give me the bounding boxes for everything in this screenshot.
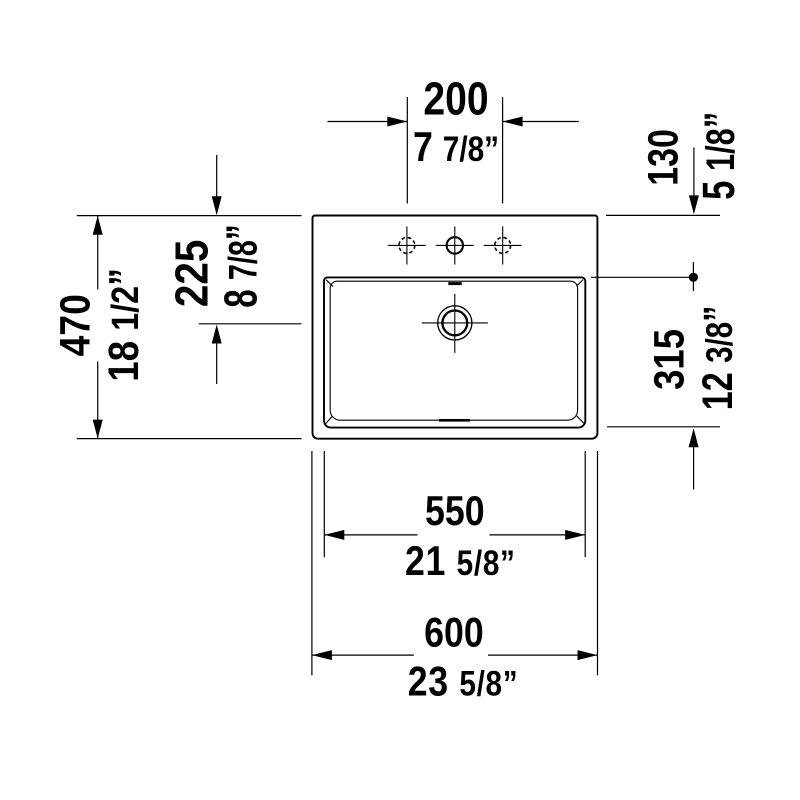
drain crosshair — [454, 294, 456, 353]
dim 200 leader right — [503, 121, 579, 123]
reference level line — [591, 276, 698, 278]
svg-text:315: 315 — [646, 329, 693, 390]
faucet hole right crosshair — [502, 226, 504, 264]
svg-text:12 3/8”: 12 3/8” — [694, 306, 742, 411]
dim 130 extension line — [606, 214, 720, 216]
svg-text:8 7/8”: 8 7/8” — [216, 224, 266, 308]
washbasin outer rim — [313, 216, 598, 439]
dim 315 extension line — [607, 426, 720, 428]
dim 600 extension line right — [597, 451, 599, 675]
basin inner rim line — [330, 281, 577, 420]
drain outer circle — [438, 306, 472, 340]
svg-text:130: 130 — [640, 129, 688, 186]
svg-text:18 1/2”: 18 1/2” — [100, 268, 147, 382]
dim 315 arrow — [689, 428, 699, 447]
dim 200 leader left — [328, 121, 408, 123]
basin corner crease top-left — [326, 280, 333, 287]
dim 470 extension line bottom — [77, 438, 302, 440]
dim 200 arrow right — [503, 117, 523, 127]
dim 470 line upper segment — [97, 216, 99, 290]
dim 200 extension line left — [406, 97, 408, 204]
faucet hole left (dashed optional) — [399, 238, 415, 254]
dim 600 line right segment — [488, 654, 598, 656]
svg-text:550: 550 — [425, 488, 485, 534]
dim 600 arrow right — [578, 650, 598, 660]
reference point tick — [692, 262, 694, 291]
basin corner crease bottom-right — [577, 416, 584, 424]
svg-text:470: 470 — [51, 294, 99, 356]
faucet hole center crosshair — [454, 226, 456, 264]
svg-text:23 5/8”: 23 5/8” — [408, 659, 519, 705]
svg-text:7 7/8”: 7 7/8” — [413, 124, 499, 170]
svg-text:200: 200 — [423, 74, 488, 126]
dim 550 extension line left — [323, 451, 325, 557]
dim 130 arrow line — [693, 148, 695, 198]
faucet hole center (solid) — [447, 237, 463, 253]
faucet hole right (dashed optional) — [495, 238, 511, 254]
dim 470 line lower segment — [97, 362, 99, 439]
svg-text:5 1/8”: 5 1/8” — [694, 112, 744, 200]
basin corner crease bottom-left — [325, 416, 332, 424]
dim 225 extension line — [199, 323, 302, 325]
basin corner crease top-right — [577, 280, 584, 287]
drain inner circle — [442, 311, 467, 336]
svg-text:225: 225 — [167, 240, 218, 308]
svg-text:21 5/8”: 21 5/8” — [405, 538, 516, 584]
dim 470 arrow up — [93, 216, 103, 235]
dim 200 extension line right — [502, 97, 504, 204]
basin outer edge — [324, 277, 585, 427]
faucet hole left crosshair — [406, 226, 408, 264]
dim 225 arrow line top — [216, 155, 218, 197]
bottom center tick — [439, 419, 470, 422]
svg-text:600: 600 — [424, 610, 484, 656]
dim 600 line left segment — [312, 654, 414, 656]
dim 550 line left segment — [324, 534, 417, 536]
dim 470 extension line top — [77, 215, 302, 217]
dim 225 arrow down — [212, 196, 222, 215]
reference point dot — [689, 273, 698, 282]
dim 600 arrow left — [312, 650, 332, 660]
dim 225 arrow line bottom — [216, 341, 218, 384]
dim 550 line right segment — [489, 534, 585, 536]
dim 600 extension line left — [311, 451, 313, 675]
overflow slot tick — [448, 282, 461, 285]
dim 130 arrow — [689, 195, 699, 214]
dim 200 arrow left — [387, 117, 407, 127]
dim 470 arrow down — [93, 420, 103, 439]
dim 550 arrow left — [324, 530, 344, 540]
dim 315 arrow line — [693, 445, 695, 490]
dim 225 arrow up — [212, 325, 222, 344]
dim 550 extension line right — [584, 451, 586, 557]
dim 550 arrow right — [565, 530, 585, 540]
